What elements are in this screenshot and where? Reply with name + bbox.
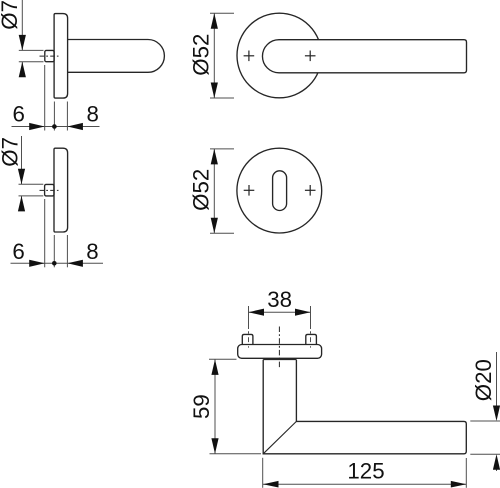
- svg-text:59: 59: [189, 394, 214, 419]
- junction dot 6/8 (middle-left): [52, 261, 57, 266]
- lever handle front view (top-right): [262, 40, 466, 73]
- escutcheon side view (middle-left): [54, 148, 68, 232]
- vertical center line (bottom): [278, 327, 280, 370]
- grip side view (top-left): [68, 40, 165, 73]
- miter line (bottom): [263, 421, 296, 453]
- dim 38 lines (bottom): [249, 311, 311, 313]
- svg-text:Ø7: Ø7: [0, 0, 22, 30]
- screw left (bottom): [242, 334, 253, 344]
- screw hole cross left (top-right): [244, 51, 255, 62]
- screw hole cross left (middle-right): [244, 185, 255, 196]
- escutcheon circle (middle-right): [237, 148, 322, 233]
- arrow Ø52 down (middle-right): [211, 218, 218, 234]
- center line (middle-left): [40, 189, 59, 191]
- svg-text:Ø52: Ø52: [189, 169, 214, 211]
- arrow 6 right-pointing (middle-left): [29, 260, 45, 267]
- arrow Ø20 down (bottom): [493, 406, 500, 422]
- arrow Ø52 up (top-right): [211, 13, 218, 29]
- dim Ø52 lines (top-right): [210, 12, 234, 14]
- arrow 59 down (bottom): [211, 438, 218, 454]
- arrow 125 right (bottom): [451, 481, 467, 488]
- arrow Ø7 up (top-left): [19, 62, 26, 77]
- svg-text:38: 38: [267, 287, 292, 312]
- dim Ø7 lines (top-left): [21, 0, 23, 50]
- svg-text:Ø52: Ø52: [189, 34, 214, 76]
- cylinder stub (middle-left): [45, 184, 54, 196]
- dim 125 lines (bottom): [263, 483, 466, 485]
- arrow 8 left-pointing (middle-left): [67, 260, 83, 267]
- dim Ø52 lines (middle-right): [210, 148, 234, 150]
- svg-text:125: 125: [347, 459, 384, 484]
- spindle stub (top-left): [45, 50, 54, 61]
- handle top view outline (bottom): [263, 360, 466, 454]
- arrow Ø52 up (middle-right): [211, 149, 218, 165]
- arrow 125 left (bottom): [263, 481, 279, 488]
- rose side view (top-left): [54, 14, 68, 99]
- arrow 6 right-pointing (top-left): [29, 123, 45, 130]
- screw right (bottom): [306, 334, 317, 344]
- arrow 8 left-pointing (top-left): [67, 123, 83, 130]
- arrow Ø7 down (top-left): [19, 35, 26, 51]
- screw hole cross right (middle-right): [305, 185, 316, 196]
- center line through spindle (top-left): [40, 55, 59, 57]
- dim Ø20 lines (bottom): [470, 420, 500, 422]
- arrow 38 right (bottom): [295, 309, 311, 316]
- svg-text:Ø20: Ø20: [471, 359, 496, 401]
- svg-text:8: 8: [86, 239, 98, 264]
- arrow 38 left (bottom): [249, 309, 265, 316]
- screw hole cross right (top-right): [305, 51, 316, 62]
- junction dot 6/8 (top-left): [52, 124, 57, 129]
- rose plate top view (bottom): [238, 345, 322, 359]
- arrow Ø7 up (middle-left): [18, 196, 25, 212]
- svg-text:6: 6: [12, 239, 24, 264]
- dim 6/8 lines (middle-left): [11, 262, 104, 264]
- dim 6/8 lines (top-left): [12, 126, 100, 128]
- rose circle (top-right): [237, 13, 322, 98]
- svg-text:6: 6: [13, 101, 25, 126]
- arrow Ø52 down (top-right): [211, 83, 218, 99]
- arrow Ø7 down (middle-left): [18, 169, 25, 185]
- arrow 59 up (bottom): [211, 359, 218, 375]
- neck seam line (bottom): [263, 359, 296, 361]
- arrow Ø20 up (bottom): [493, 454, 500, 470]
- svg-text:8: 8: [87, 101, 99, 126]
- dim Ø7 lines (middle-left): [21, 136, 23, 184]
- dim 59 lines (bottom): [214, 359, 216, 453]
- keyhole slot: [273, 171, 287, 211]
- svg-text:Ø7: Ø7: [0, 137, 22, 167]
